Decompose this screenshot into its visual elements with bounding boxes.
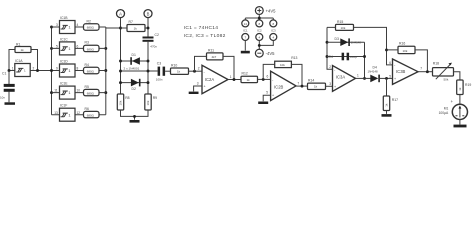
svg-text:12: 12	[77, 111, 81, 115]
svg-text:1k: 1k	[385, 103, 389, 107]
svg-text:IC2A: IC2A	[205, 77, 215, 82]
svg-text:IC1F: IC1F	[60, 104, 67, 108]
svg-text:11: 11	[54, 89, 58, 93]
svg-text:3: 3	[197, 82, 199, 86]
svg-text:5: 5	[266, 91, 268, 95]
svg-text:R10: R10	[171, 64, 177, 68]
svg-text:R15: R15	[337, 20, 343, 24]
svg-text:10k: 10k	[280, 63, 285, 67]
svg-text:2: 2	[198, 66, 200, 70]
svg-text:680Ω: 680Ω	[87, 47, 95, 51]
svg-text:IC2, IC3 = TL082: IC2, IC3 = TL082	[184, 33, 226, 39]
svg-text:IC2: IC2	[257, 29, 262, 33]
svg-text:3: 3	[56, 23, 58, 27]
svg-text:+: +	[204, 85, 206, 89]
svg-text:+: +	[394, 77, 396, 81]
svg-text:IC1 = 74HC14: IC1 = 74HC14	[184, 25, 219, 31]
svg-text:4: 4	[77, 23, 79, 27]
svg-text:7: 7	[420, 66, 422, 70]
svg-text:B: B	[147, 11, 150, 16]
svg-text:R19: R19	[465, 83, 471, 87]
svg-text:10n: 10n	[0, 95, 5, 99]
svg-text:R14: R14	[308, 79, 314, 83]
svg-text:IC1E: IC1E	[60, 82, 68, 86]
svg-text:6: 6	[389, 61, 391, 65]
svg-text:R3: R3	[85, 41, 89, 45]
svg-text:IC1B: IC1B	[60, 16, 68, 20]
svg-text:8: 8	[77, 67, 79, 71]
svg-text:R13: R13	[291, 56, 297, 60]
svg-text:IC3: IC3	[271, 29, 276, 33]
svg-text:50k: 50k	[444, 77, 449, 81]
svg-text:2 x 1N4001: 2 x 1N4001	[124, 67, 140, 71]
svg-text:IC2B: IC2B	[274, 85, 284, 90]
svg-text:R11: R11	[208, 48, 214, 52]
svg-text:M1: M1	[444, 107, 449, 111]
svg-text:1N4148: 1N4148	[351, 41, 362, 45]
svg-text:9: 9	[56, 67, 58, 71]
svg-text:+: +	[334, 85, 336, 89]
svg-text:IC1D: IC1D	[60, 60, 68, 64]
svg-text:D1: D1	[132, 53, 136, 57]
svg-text:10k: 10k	[403, 49, 408, 53]
svg-text:1: 1	[357, 73, 359, 77]
svg-text:1k: 1k	[21, 48, 25, 52]
svg-text:10k: 10k	[341, 26, 346, 30]
svg-text:100µA: 100µA	[439, 111, 449, 115]
svg-text:1k: 1k	[247, 78, 251, 82]
svg-text:R6: R6	[85, 107, 89, 111]
svg-text:1: 1	[230, 75, 232, 79]
svg-text:R12: R12	[242, 72, 248, 76]
svg-text:R18: R18	[433, 62, 439, 66]
svg-text:1k: 1k	[458, 87, 462, 91]
svg-text:IC3B: IC3B	[396, 69, 406, 74]
svg-text:-4V5: -4V5	[266, 51, 276, 56]
svg-text:C3: C3	[157, 62, 161, 66]
svg-text:C4: C4	[328, 55, 332, 59]
svg-text:3: 3	[329, 82, 331, 86]
svg-text:10: 10	[77, 89, 81, 93]
svg-text:2: 2	[329, 65, 331, 69]
svg-text:C1: C1	[2, 71, 6, 75]
svg-text:4k7: 4k7	[212, 55, 217, 59]
svg-text:7: 7	[297, 81, 299, 85]
svg-text:10k: 10k	[146, 100, 150, 105]
svg-text:IC1A: IC1A	[15, 59, 23, 63]
svg-text:R5: R5	[85, 85, 89, 89]
svg-text:IC3A: IC3A	[336, 75, 346, 80]
svg-text:680Ω: 680Ω	[87, 92, 95, 96]
svg-text:R7: R7	[129, 20, 133, 24]
svg-text:5: 5	[56, 45, 58, 49]
svg-text:470n: 470n	[150, 45, 157, 49]
svg-text:1k: 1k	[134, 27, 138, 31]
svg-text:5: 5	[389, 75, 391, 79]
svg-text:IC1C: IC1C	[60, 37, 68, 41]
svg-text:680Ω: 680Ω	[87, 114, 95, 118]
svg-text:R1: R1	[16, 43, 20, 47]
svg-text:R2: R2	[87, 19, 91, 23]
svg-text:14: 14	[244, 22, 248, 26]
svg-text:+4V5: +4V5	[266, 8, 277, 13]
svg-text:R16: R16	[399, 42, 405, 46]
svg-text:C2: C2	[155, 33, 159, 37]
svg-text:1: 1	[12, 67, 14, 71]
svg-text:100n: 100n	[156, 78, 163, 82]
svg-text:R17: R17	[392, 98, 398, 102]
svg-text:IC1: IC1	[243, 29, 248, 33]
svg-text:+: +	[272, 94, 274, 98]
svg-text:1k: 1k	[314, 85, 318, 89]
svg-text:6: 6	[267, 75, 269, 79]
svg-text:D2: D2	[132, 87, 136, 91]
svg-text:1k: 1k	[177, 70, 181, 74]
svg-text:10k: 10k	[119, 100, 123, 105]
svg-text:A: A	[119, 11, 122, 16]
svg-text:R9: R9	[153, 96, 157, 100]
svg-text:2: 2	[33, 67, 35, 71]
svg-text:6: 6	[77, 45, 79, 49]
svg-text:100µ: 100µ	[350, 55, 357, 59]
svg-text:R4: R4	[85, 63, 89, 67]
svg-text:13: 13	[54, 111, 58, 115]
svg-text:680Ω: 680Ω	[87, 69, 95, 73]
svg-text:D3: D3	[335, 37, 339, 41]
svg-text:R8: R8	[125, 96, 129, 100]
svg-text:1N4148: 1N4148	[368, 69, 379, 73]
svg-text:680Ω: 680Ω	[87, 25, 95, 29]
